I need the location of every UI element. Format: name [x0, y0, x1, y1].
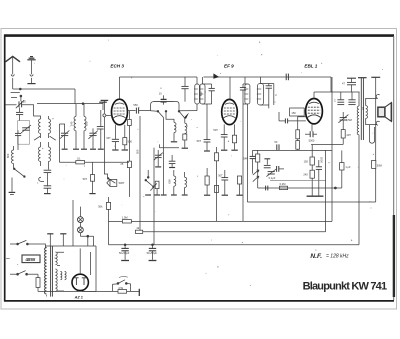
power rating box 48W [22, 255, 40, 263]
bus y231 [143, 150, 326, 231]
ground [9, 192, 16, 194]
wire bus [34, 112, 41, 119]
wire vertical [163, 118, 165, 194]
capacitor 54P in series [243, 150, 255, 173]
svg-text:C: C [334, 98, 336, 102]
osc tank loop [151, 102, 179, 111]
wire anode row [314, 91, 360, 93]
wire [13, 88, 75, 90]
speaker [378, 103, 392, 122]
wire loop phono [104, 171, 107, 178]
resistor 4k [135, 226, 142, 233]
svg-text:0,1: 0,1 [77, 157, 81, 161]
capacitor [15, 130, 21, 150]
resistor 50k [98, 197, 110, 245]
svg-text:50+50μF: 50+50μF [147, 251, 158, 255]
wire [103, 117, 105, 171]
wire U loop [369, 125, 374, 144]
node dot [124, 244, 126, 246]
trimmer box [18, 121, 30, 145]
tank2 capacitor [240, 84, 246, 90]
capacitor 5000 [305, 131, 317, 142]
bus y202 [247, 201, 375, 203]
svg-text:0,1μF: 0,1μF [269, 176, 276, 180]
tank1 wires [203, 77, 212, 140]
svg-text:150: 150 [291, 111, 296, 115]
AVC arrow junction [213, 73, 219, 78]
squiggle scan mark [119, 276, 128, 277]
svg-text:500T: 500T [119, 181, 125, 185]
capacitor 50 series [274, 140, 279, 150]
wire tube top [229, 77, 231, 99]
diode arrows [253, 170, 259, 182]
svg-text:50M: 50M [377, 163, 382, 167]
grid cap T-bar [101, 100, 109, 113]
osc coil A [174, 122, 176, 141]
series capacitor on bus [286, 74, 288, 81]
svg-text:EBL 1: EBL 1 [304, 64, 317, 69]
resistor [205, 168, 209, 195]
tube EBL1 [304, 64, 322, 124]
ground pair [112, 149, 128, 151]
series caps pair [277, 166, 284, 172]
coil lower [185, 172, 187, 194]
tank2 coil [244, 84, 250, 104]
ground [44, 193, 51, 195]
capacitor [266, 186, 268, 191]
ground [89, 193, 95, 195]
svg-text:10: 10 [159, 91, 162, 95]
svg-text:50T: 50T [83, 177, 88, 181]
transformer core [361, 78, 363, 140]
svg-text:335: 335 [85, 121, 89, 126]
svg-text:5000: 5000 [319, 157, 323, 163]
node dot [19, 88, 21, 90]
wire verticals power [73, 200, 94, 246]
lamp wires [79, 207, 81, 237]
wire bus [37, 103, 103, 105]
wire long vertical [242, 90, 244, 221]
wire top connect [45, 246, 96, 252]
AZ1 output wire [82, 290, 139, 292]
IF coil L1b [49, 119, 51, 133]
rectifier AZ1 [72, 274, 88, 299]
cathode resistors [296, 117, 306, 151]
antenna A [6, 56, 21, 89]
svg-text:48W: 48W [25, 257, 35, 263]
cap T-bar [264, 159, 270, 165]
svg-text:50: 50 [274, 140, 277, 144]
resistor 40T [341, 130, 351, 145]
secondary winding [366, 98, 377, 124]
secondary HV winding [55, 252, 57, 291]
wire long vertical [139, 116, 141, 231]
ground [182, 147, 188, 149]
svg-text:1 μF: 1 μF [345, 165, 351, 169]
capacitor 50T below EF9 [213, 124, 227, 149]
resistor UF [340, 150, 351, 188]
svg-text:50k: 50k [98, 205, 103, 209]
electrolytic cap 1 [119, 245, 130, 261]
svg-text:50T: 50T [197, 139, 202, 143]
wire from frame [5, 104, 17, 106]
wire [139, 110, 151, 112]
svg-text:47: 47 [342, 81, 345, 85]
capacitor 47 stack [342, 78, 356, 92]
switch k2 + arrow [178, 110, 189, 118]
coil 600 lower [168, 170, 176, 194]
IF coil L2a [38, 147, 40, 161]
ground [171, 141, 177, 143]
wire [20, 96, 22, 101]
capacitor 150 [16, 108, 23, 121]
svg-text:50T: 50T [218, 173, 223, 177]
curl wire [39, 177, 44, 181]
bus y221 [109, 77, 333, 221]
primary winding [357, 92, 359, 245]
resistor 240 [303, 165, 314, 196]
svg-text:1,5M: 1,5M [122, 216, 128, 220]
svg-text:54P: 54P [243, 156, 248, 160]
shortwave switch loop [113, 280, 131, 292]
wire long vertical [246, 104, 248, 202]
wire stub [11, 97, 17, 99]
resistor 1,5M series [122, 216, 132, 223]
svg-text:140: 140 [70, 121, 74, 126]
svg-text:150: 150 [304, 159, 309, 163]
wire dashed [270, 179, 326, 181]
wire [253, 149, 333, 151]
top bus wire 1 [120, 76, 198, 78]
wire [41, 142, 49, 170]
resistor [183, 134, 187, 148]
wire box bottom [160, 144, 180, 147]
fuse resistor [36, 274, 40, 291]
resistor [237, 176, 241, 195]
svg-text:600: 600 [168, 179, 172, 184]
resistor 25A [120, 161, 131, 197]
capacitor 50T mid [218, 170, 228, 195]
capacitor padder 2 [169, 155, 176, 167]
mains switch a [10, 240, 45, 247]
resistor 0,2M [279, 182, 287, 190]
taps [57, 252, 64, 291]
IF coil L1a [38, 119, 40, 133]
capacitor 50T left [197, 139, 211, 150]
tank3 coil [257, 84, 264, 106]
padder trimmer capacitor 4,7 [154, 150, 163, 166]
tuning arrows [34, 136, 56, 140]
N.F. label [310, 253, 349, 260]
ground row [204, 194, 243, 196]
coil 650 [179, 77, 203, 111]
osc coil 140 [70, 104, 76, 149]
ground row [62, 148, 104, 150]
ground pair [221, 149, 238, 151]
ground pair padder [155, 166, 175, 169]
earth electrode [27, 57, 35, 83]
IF coil L2b [49, 147, 51, 161]
wire AZ1 right verticals [90, 252, 96, 291]
osc coil 335 [84, 104, 89, 149]
tank1 capacitor [209, 84, 215, 104]
osc coil B [185, 118, 187, 133]
wire [154, 101, 174, 103]
capacitor 550 [133, 103, 138, 113]
svg-text:4k: 4k [136, 226, 139, 230]
capacitor 15T [106, 125, 119, 150]
svg-text:40T: 40T [346, 133, 351, 137]
capacitor [44, 170, 52, 172]
switch k1 [151, 110, 167, 117]
svg-text:600: 600 [6, 153, 10, 158]
cap T-top 1 [358, 77, 367, 79]
trimmer capacitor 10 [16, 100, 26, 109]
svg-text:0,2M: 0,2M [280, 182, 286, 186]
resistor anode [128, 111, 132, 162]
svg-text:50T: 50T [213, 128, 218, 132]
speaker clip bottom [376, 121, 379, 125]
svg-text:50+50μF: 50+50μF [119, 251, 130, 255]
capacitor 4.7 [44, 173, 52, 193]
wire [74, 89, 76, 104]
wire loop antenna coil top [22, 105, 34, 112]
node dot [82, 103, 84, 105]
svg-text:500: 500 [128, 139, 133, 143]
svg-text:Blaupunkt KW 741: Blaupunkt KW 741 [303, 281, 388, 293]
resistor 50T [83, 162, 95, 193]
svg-text:15T: 15T [106, 136, 111, 140]
capacitor [97, 110, 104, 149]
heater bottom wire [38, 290, 96, 292]
svg-text:= 128 kHz: = 128 kHz [326, 253, 349, 259]
wire long vertical [153, 148, 155, 245]
svg-text:0,5M: 0,5M [346, 118, 352, 122]
svg-text:500: 500 [136, 149, 140, 154]
bus y245 [109, 244, 360, 246]
speaker clip top [376, 94, 379, 98]
box 150 [290, 108, 305, 116]
tank3 wires [261, 77, 274, 108]
electrolytic cap 2 [147, 245, 158, 261]
grid hook [103, 114, 106, 117]
phono pickup [107, 179, 125, 186]
resistor lower [155, 181, 159, 194]
band switch lower a [145, 170, 153, 186]
wire [166, 111, 174, 122]
scan speckle noise [17, 40, 383, 286]
resistor 50M right [372, 160, 382, 168]
potentiometer 0,5M [338, 112, 351, 130]
wire [45, 248, 46, 297]
capacitor [264, 165, 271, 167]
trimmer capacitor [59, 124, 69, 149]
transformer core [51, 246, 53, 297]
trimmer capacitor [21, 125, 31, 133]
schematic frame [4, 35, 394, 302]
wire bus AVC [59, 124, 129, 162]
resistor 0,1M [214, 185, 218, 192]
wire h 188 [258, 187, 342, 189]
wire [41, 116, 49, 138]
tank3 capacitor [266, 84, 272, 106]
ground bar under earth [27, 83, 35, 85]
coil 600 [6, 146, 13, 168]
resistor 300 [232, 124, 236, 149]
transformer T1 primary [45, 248, 47, 295]
svg-text:2: 2 [275, 93, 277, 97]
heater coils [60, 271, 66, 279]
svg-text:N.F.: N.F. [310, 253, 322, 260]
node dot [20, 95, 22, 97]
wire tube top to bus [119, 77, 121, 99]
svg-text:4,5k: 4,5k [118, 286, 124, 290]
trimmer 10 [159, 91, 167, 104]
top bus wire 2 [204, 76, 332, 78]
tube ECH3 [110, 64, 127, 125]
svg-text:~: ~ [6, 254, 10, 263]
svg-text:550: 550 [133, 103, 138, 107]
pilot lamp 2 [78, 227, 84, 233]
ground [204, 150, 210, 152]
wire h 144.5 [311, 144, 343, 146]
switch [107, 178, 115, 184]
wire bus drop [330, 77, 332, 92]
svg-text:5000: 5000 [309, 139, 315, 143]
ground row lower [145, 194, 187, 196]
wire AZ1 top [79, 248, 81, 274]
capacitor C pair [334, 92, 344, 105]
cap T-top 2 [371, 77, 380, 202]
capacitor 5000 vert [316, 157, 324, 196]
band switch [12, 168, 25, 192]
wire antenna to bus [11, 92, 20, 94]
trimmer capacitor [88, 128, 97, 148]
pilot lamp 1 [78, 217, 84, 223]
svg-text:ECH 3: ECH 3 [110, 64, 124, 69]
capacitor 25 [348, 92, 355, 105]
tube EF9 [222, 64, 238, 125]
wire tube top [313, 92, 315, 99]
grid series capacitor [279, 112, 306, 123]
tank2 wires [243, 77, 247, 104]
resistor 150 [304, 145, 315, 165]
svg-text:EF 9: EF 9 [224, 64, 234, 69]
tank1 coil [199, 84, 205, 104]
terminal post [138, 289, 140, 296]
feedback resistor [256, 150, 260, 188]
svg-text:650: 650 [199, 91, 203, 96]
capacitor on bus [181, 77, 188, 102]
wire vertical 216 [216, 220, 218, 222]
mains switch b [10, 271, 38, 276]
svg-text:AZ 1: AZ 1 [74, 295, 83, 299]
svg-text:240: 240 [303, 173, 308, 177]
cap T-bars [47, 234, 66, 246]
resistor 4,5k [118, 286, 127, 293]
resistor 1,5M [214, 147, 218, 221]
resistor 500 [123, 125, 133, 150]
wire series cap 550 [128, 110, 136, 112]
node dot [334, 187, 336, 189]
svg-text:10: 10 [23, 100, 26, 104]
node dot [87, 235, 89, 237]
trimmer 0,1uF [266, 169, 276, 180]
wire tube bottom [311, 124, 313, 131]
resistor 0,1 [76, 157, 85, 164]
cap T-bar [99, 102, 107, 110]
band switch lower b [150, 183, 156, 190]
big ground [307, 195, 324, 197]
